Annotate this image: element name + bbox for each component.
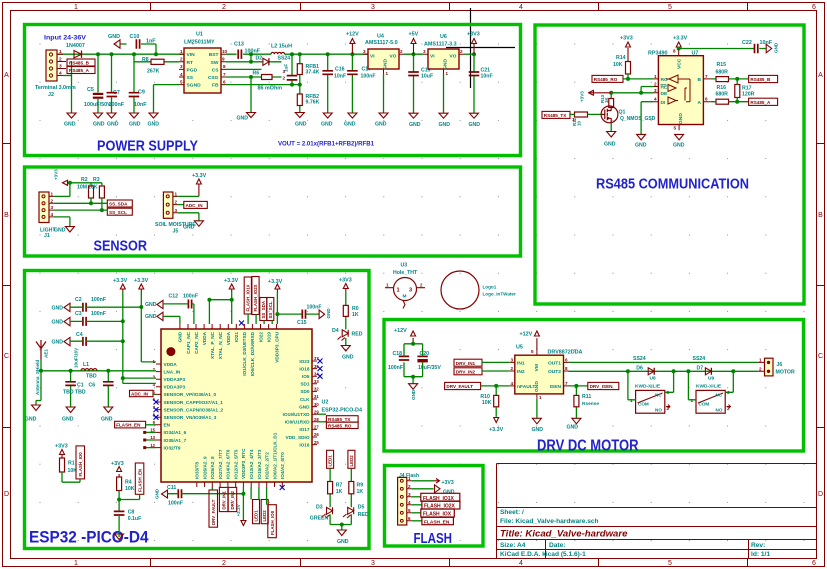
svg-text:86 mOhm: 86 mOhm (258, 86, 283, 92)
svg-text:D7: D7 (697, 366, 704, 372)
svg-text:GND: GND (673, 143, 685, 149)
svg-text:Antenna_SHield: Antenna_SHield (35, 360, 40, 395)
svg-text:R7: R7 (336, 483, 343, 489)
svg-text:GND: GND (295, 122, 307, 128)
svg-text:+3.3V: +3.3V (224, 278, 239, 284)
svg-text:GND: GND (411, 389, 416, 400)
svg-text:2: 2 (51, 198, 54, 203)
svg-text:SS24: SS24 (633, 356, 646, 362)
svg-text:R4: R4 (125, 480, 132, 486)
svg-text:FLASH_EN: FLASH_EN (424, 519, 450, 525)
svg-text:GND: GND (148, 122, 160, 128)
svg-text:6: 6 (223, 79, 226, 84)
svg-text:GND: GND (299, 404, 310, 409)
svg-text:NO: NO (655, 408, 662, 413)
svg-text:GND: GND (93, 122, 105, 128)
U7 pin stubs (654, 49, 711, 131)
U7 internal buffers (666, 75, 690, 104)
resistor R1 10K (60, 458, 65, 472)
wire RO row (623, 78, 654, 80)
svg-text:Rev:: Rev: (751, 542, 765, 549)
svg-text:LNA_IN: LNA_IN (164, 369, 182, 374)
svg-text:SGND: SGND (187, 83, 202, 89)
svg-text:B: B (818, 212, 823, 219)
svg-text:FLASH_EN: FLASH_EN (116, 423, 141, 428)
global label RS485_RO (592, 75, 623, 82)
svg-text:10nF: 10nF (481, 74, 493, 80)
svg-text:IO14/A2_6/T6: IO14/A2_6/T6 (226, 449, 231, 479)
svg-text:2: 2 (460, 49, 463, 54)
svg-text:A: A (697, 100, 701, 106)
svg-text:VDDA: VDDA (164, 362, 178, 367)
wire J5 pin3 to gnd (178, 213, 199, 221)
svg-text:VO: VO (389, 54, 396, 60)
vertical global label DRV_FAULT (211, 487, 213, 490)
global label FLASH_EN (EN pin) (115, 421, 146, 428)
svg-text:KiCad E.D.A. kicad (5.1.6)-1: KiCad E.D.A. kicad (5.1.6)-1 (500, 551, 586, 558)
svg-text:35: 35 (314, 364, 319, 369)
svg-text:A: A (818, 72, 823, 79)
svg-text:IO35/A1_7: IO35/A1_7 (164, 438, 187, 443)
global label RS485_A (749, 98, 778, 105)
svg-text:26: 26 (314, 432, 319, 437)
svg-text:IO12/A2_5/T5: IO12/A2_5/T5 (234, 449, 239, 479)
vertical global label LED1 right (327, 450, 334, 468)
svg-text:3: 3 (59, 64, 62, 70)
connector J6 MOTOR (765, 358, 774, 376)
svg-text:R16: R16 (717, 85, 727, 91)
svg-text:GND: GND (443, 490, 455, 496)
svg-text:1: 1 (759, 357, 762, 362)
svg-text:GND: GND (237, 116, 249, 122)
svg-text:C12: C12 (169, 294, 179, 300)
svg-text:VDDA: VDDA (226, 331, 231, 345)
svg-text:A: A (4, 72, 9, 79)
svg-text:GND: GND (321, 122, 333, 128)
global label DRV_ISEN (588, 382, 619, 389)
svg-text:Sheet: /: Sheet: / (500, 509, 524, 516)
svg-text:4: 4 (408, 500, 411, 505)
svg-text:30: 30 (314, 402, 319, 407)
svg-text:C8: C8 (128, 510, 135, 516)
svg-text:U6: U6 (440, 34, 447, 40)
svg-text:IO27/A2_7/T7: IO27/A2_7/T7 (218, 449, 223, 479)
svg-text:VOUT = 2.01x(RFB1+RFB2)/RFB1: VOUT = 2.01x(RFB1+RFB2)/RFB1 (278, 141, 374, 148)
svg-text:RS485_TX: RS485_TX (328, 417, 351, 422)
svg-text:IO18: IO18 (299, 366, 310, 371)
svg-text:267K: 267K (147, 69, 160, 75)
svg-text:IO33/T8: IO33/T8 (195, 462, 200, 479)
svg-text:RE: RE (661, 85, 669, 91)
gnd arrow J5 (194, 221, 203, 227)
svg-text:GND: GND (469, 122, 481, 128)
svg-text:Q_NMOS_GSD: Q_NMOS_GSD (620, 116, 656, 122)
vertical global label FLASH_IO2X (252, 277, 259, 315)
svg-text:+12V: +12V (346, 32, 359, 38)
resistor R11 Rsense (574, 395, 579, 406)
gnd arrow right C22 (766, 44, 772, 53)
junction dots (249, 52, 253, 56)
svg-text:SENSOR_CAPP/IO37/A1_1: SENSOR_CAPP/IO37/A1_1 (164, 400, 224, 405)
wire R8 tap (134, 61, 179, 63)
wire U6 out (464, 53, 474, 55)
svg-text:2: 2 (511, 366, 514, 371)
svg-text:2: 2 (175, 200, 178, 205)
capacitor C6 TBD (107, 371, 109, 407)
svg-text:POWER SUPPLY: POWER SUPPLY (97, 139, 198, 155)
resistor R12 10 (575, 112, 588, 117)
svg-text:GND: GND (678, 113, 684, 124)
svg-text:VO: VO (449, 54, 456, 60)
vertical global label LED2 (258, 487, 260, 500)
svg-text:SS: SS (187, 75, 194, 81)
svg-text:IO22: IO22 (258, 332, 263, 343)
svg-text:DRV_IN2: DRV_IN2 (230, 490, 235, 509)
svg-text:RS485_A: RS485_A (69, 68, 90, 73)
svg-text:+3V3: +3V3 (111, 461, 124, 467)
wire output rail (251, 53, 368, 55)
svg-text:1: 1 (386, 71, 389, 76)
global label SS_SDA (107, 200, 132, 207)
svg-text:C10: C10 (130, 34, 140, 40)
svg-text:KWD-XILIE: KWD-XILIE (696, 384, 722, 390)
svg-text:25: 25 (314, 440, 319, 445)
svg-text:J1: J1 (44, 233, 50, 239)
resistor R7 1K (329, 469, 331, 508)
svg-text:R6: R6 (253, 71, 260, 77)
no-connect X right pins (318, 359, 323, 379)
wire cap bridge (404, 344, 423, 384)
wire gnd into title (118, 534, 120, 537)
svg-text:IO26/A2_9: IO26/A2_9 (202, 456, 207, 479)
svg-text:R2: R2 (81, 177, 88, 183)
capacitor C22 10nF (679, 48, 767, 50)
svg-text:GND: GND (326, 308, 331, 319)
svg-text:IO19: IO19 (266, 332, 271, 343)
svg-text:SS_SDA: SS_SDA (109, 202, 128, 207)
svg-text:1: 1 (397, 288, 400, 294)
resistor R4 10K (117, 477, 122, 491)
global label DRV_IN2 (454, 368, 482, 375)
global label RS485_TX (317, 413, 326, 415)
svg-text:GND: GND (774, 42, 779, 53)
svg-text:SD1: SD1 (300, 382, 310, 387)
svg-text:IO0/A2_1/T1/CLK_D1: IO0/A2_1/T1/CLK_D1 (272, 432, 277, 479)
svg-text:GND: GND (604, 142, 616, 148)
svg-text:+3.3V: +3.3V (673, 36, 688, 42)
wire J1 pin1 to +3V3 and R2 R3 rail (54, 183, 102, 197)
svg-text:+3V3: +3V3 (467, 32, 480, 38)
svg-text:RED: RED (358, 512, 369, 518)
svg-text:VDDA: VDDA (202, 331, 207, 345)
svg-text:PGD: PGD (187, 67, 198, 73)
svg-text:9: 9 (222, 57, 225, 62)
svg-text:33: 33 (314, 379, 319, 384)
svg-text:TBD: TBD (86, 373, 97, 379)
svg-text:3: 3 (371, 560, 375, 567)
svg-text:GND: GND (145, 314, 157, 320)
svg-text:ESP32-PICO-D4: ESP32-PICO-D4 (322, 408, 362, 414)
svg-text:D: D (4, 491, 9, 498)
svg-text:ADC_IN: ADC_IN (131, 392, 149, 397)
svg-text:4: 4 (51, 212, 54, 217)
svg-text:32: 32 (314, 387, 319, 392)
svg-text:37: 37 (314, 356, 319, 361)
gnd arrow Q1 (610, 123, 612, 132)
svg-text:5: 5 (668, 560, 672, 567)
vertical global label LED1 (250, 487, 252, 500)
svg-text:COM: COM (699, 402, 710, 407)
svg-text:3: 3 (51, 205, 54, 210)
svg-text:GND: GND (178, 331, 183, 342)
svg-text:SOIL MOISTURE: SOIL MOISTURE (155, 222, 196, 228)
svg-text:7: 7 (223, 72, 226, 77)
svg-text:RO: RO (661, 77, 669, 83)
svg-text:GND: GND (129, 122, 141, 128)
svg-text:U5: U5 (516, 345, 523, 351)
svg-text:IO1/CLK_D3/U0TXD: IO1/CLK_D3/U0TXD (242, 331, 247, 375)
svg-text:D2: D2 (256, 56, 263, 62)
svg-text:DRV_FAULT: DRV_FAULT (211, 499, 216, 525)
svg-text:GND: GND (342, 355, 354, 361)
svg-text:3: 3 (511, 357, 514, 362)
vertical global label FLASH_IO0 bottom (266, 487, 268, 505)
svg-text:GND: GND (155, 488, 160, 499)
gnd arrows bottom row (67, 113, 158, 118)
svg-text:IO2/A2_2/T2: IO2/A2_2/T2 (265, 452, 270, 479)
svg-text:LED1: LED1 (254, 510, 259, 522)
vertical global label SS_SDA (260, 298, 267, 321)
global label RS485_B (67, 59, 95, 66)
svg-text:IO13/A2_4/T4: IO13/A2_4/T4 (249, 449, 254, 479)
svg-text:FB: FB (212, 83, 219, 89)
svg-text:LED2: LED2 (349, 455, 354, 467)
logo circle (441, 271, 479, 309)
no-connect X top (239, 321, 244, 326)
svg-text:J2: J2 (48, 92, 54, 98)
svg-text:FLASH_IO0: FLASH_IO0 (78, 452, 83, 477)
svg-text:GND: GND (107, 122, 119, 128)
svg-text:GREEN: GREEN (310, 516, 329, 522)
svg-text:L1: L1 (83, 362, 89, 368)
svg-text:+3.3V: +3.3V (236, 503, 241, 516)
title block (497, 464, 817, 559)
svg-text:RS485_RO: RS485_RO (594, 77, 618, 82)
svg-text:9.76K: 9.76K (306, 100, 320, 106)
wire switch 1 (628, 371, 674, 400)
svg-text:1: 1 (691, 398, 694, 403)
svg-text:4: 4 (519, 4, 523, 11)
svg-text:GND: GND (409, 122, 421, 128)
svg-text:IO32/T9: IO32/T9 (164, 445, 181, 450)
svg-text:VDDA3P3: VDDA3P3 (164, 385, 186, 390)
svg-text:DE: DE (661, 91, 669, 97)
svg-text:DRV DC MOTOR: DRV DC MOTOR (537, 438, 639, 455)
vertical global label FLASH_IO1X (244, 277, 251, 314)
svg-text:1: 1 (446, 71, 449, 76)
svg-text:34: 34 (314, 371, 319, 376)
global label RS485_RO (317, 421, 326, 423)
wire BST to C13 (226, 54, 251, 62)
vertical global label SS_SCL (267, 298, 274, 321)
svg-text:IO25/A2_8: IO25/A2_8 (210, 456, 215, 479)
svg-text:D5: D5 (358, 505, 365, 511)
svg-text:10: 10 (577, 121, 582, 126)
svg-text:AE1: AE1 (44, 349, 49, 358)
gnd arrow RFB2 (295, 113, 304, 118)
svg-text:VDD3P3_CPU: VDD3P3_CPU (274, 331, 279, 362)
section box POWER SUPPLY (25, 25, 521, 156)
svg-text:D3: D3 (316, 505, 323, 511)
svg-text:IO0/CLK_D2/U0RXD: IO0/CLK_D2/U0RXD (250, 331, 255, 376)
svg-text:C22: C22 (742, 40, 752, 46)
svg-text:+12V: +12V (520, 332, 533, 338)
svg-text:U1: U1 (196, 32, 203, 38)
svg-text:CLK: CLK (300, 397, 310, 402)
svg-text:NC: NC (716, 392, 723, 397)
svg-text:2: 2 (222, 4, 226, 11)
resistor RFB1 37.4K (297, 64, 302, 75)
svg-text:GND: GND (51, 306, 63, 312)
svg-text:2: 2 (283, 76, 286, 81)
svg-text:2: 2 (400, 49, 403, 54)
svg-text:DRV_ISEN: DRV_ISEN (590, 384, 614, 389)
svg-text:GND: GND (51, 320, 63, 326)
svg-text:GND: GND (375, 122, 387, 128)
svg-text:GND: GND (108, 34, 120, 40)
svg-text:10M: 10M (77, 185, 87, 191)
svg-text:XTAL_P_NC: XTAL_P_NC (210, 331, 215, 359)
U2 right pin stubs (312, 361, 317, 445)
svg-text:GND: GND (145, 302, 157, 308)
svg-text:1: 1 (654, 74, 657, 79)
power arrow +3.3V down (242, 487, 244, 520)
vertical global label LED2 right (348, 450, 355, 468)
svg-text:FLASH: FLASH (414, 531, 453, 547)
svg-text:+5V: +5V (409, 32, 419, 38)
svg-text:IO5: IO5 (302, 374, 310, 379)
svg-text:SENSOR_VN/IO39/A1_3: SENSOR_VN/IO39/A1_3 (164, 415, 217, 420)
svg-text:2: 2 (759, 366, 762, 371)
svg-text:C: C (4, 353, 9, 360)
gnd arrow U7 (675, 134, 684, 140)
svg-text:VI: VI (370, 54, 375, 60)
svg-text:IN2: IN2 (517, 369, 525, 375)
svg-text:OUT1: OUT1 (548, 360, 561, 366)
wire cap columns (72, 44, 157, 113)
svg-text:1: 1 (74, 560, 78, 567)
resistor RFB2 9.76K (297, 94, 302, 106)
svg-text:+3V3: +3V3 (55, 444, 68, 450)
wire U4 to U6 (404, 53, 423, 55)
svg-text:AMS1117-3.3: AMS1117-3.3 (424, 42, 457, 48)
svg-text:U3: U3 (401, 263, 408, 269)
svg-text:nFAULT: nFAULT (517, 384, 535, 390)
section box DRV DC MOTOR (384, 320, 804, 452)
capacitor C16 10nF (327, 54, 329, 113)
svg-text:3: 3 (283, 69, 286, 74)
svg-text:VIN: VIN (187, 52, 196, 58)
global label SS_SCL (107, 208, 132, 215)
svg-text:TBD: TBD (75, 390, 86, 396)
global label RS485_B (749, 75, 778, 82)
svg-text:7: 7 (705, 74, 708, 79)
svg-text:GND: GND (337, 539, 349, 545)
svg-text:4: 4 (59, 71, 62, 77)
wire switch 2 (688, 371, 733, 400)
svg-text:2: 2 (222, 560, 226, 567)
global label DRV_FAULT (445, 382, 481, 389)
capacitor C1 TBD (70, 371, 72, 407)
svg-text:3: 3 (180, 64, 183, 69)
svg-text:1: 1 (59, 49, 62, 55)
svg-text:5: 5 (180, 79, 183, 84)
svg-text:LM25011MY: LM25011MY (184, 40, 215, 46)
svg-text:SS24: SS24 (278, 56, 291, 62)
svg-text:IO19/U1TXD: IO19/U1TXD (283, 412, 310, 417)
svg-text:Logo1: Logo1 (483, 285, 497, 290)
svg-text:C5: C5 (87, 87, 94, 93)
svg-text:680R: 680R (716, 70, 729, 76)
svg-text:10nF: 10nF (134, 102, 147, 108)
svg-text:ISEN: ISEN (550, 384, 562, 390)
svg-text:GND: GND (344, 122, 356, 128)
svg-text:1: 1 (74, 4, 78, 11)
svg-text:Logo_InTWater: Logo_InTWater (483, 292, 516, 297)
svg-text:SS_SCL: SS_SCL (109, 210, 127, 215)
svg-text:10K: 10K (88, 185, 98, 191)
svg-text:4: 4 (511, 381, 514, 386)
svg-text:R3: R3 (93, 177, 100, 183)
svg-text:10K: 10K (482, 400, 492, 406)
global label FLASH_EN (411, 520, 422, 522)
svg-text:Q1: Q1 (619, 110, 626, 116)
svg-text:1: 1 (180, 49, 183, 54)
svg-text:GND: GND (101, 417, 113, 423)
svg-text:+3V3: +3V3 (339, 278, 352, 284)
power arrow +3V3 pin1 (411, 480, 434, 482)
svg-text:R11: R11 (582, 394, 591, 400)
capacitor C21 10nF (473, 54, 475, 113)
wire IO34 IO35 IO32 stubs (146, 432, 156, 447)
svg-text:Size: A4: Size: A4 (500, 542, 526, 549)
svg-text:4: 4 (519, 560, 523, 567)
svg-text:1: 1 (408, 476, 411, 481)
gnd arrow U5 (536, 399, 538, 418)
svg-text:U2: U2 (322, 400, 329, 406)
svg-text:GND: GND (567, 425, 579, 431)
power arrow +3.3V down (494, 418, 499, 423)
svg-text:CS: CS (212, 67, 220, 73)
svg-text:SD0: SD0 (300, 389, 310, 394)
svg-text:10: 10 (222, 49, 228, 54)
svg-text:C16: C16 (335, 67, 345, 73)
section box FLASH (385, 466, 484, 547)
svg-text:3: 3 (363, 49, 366, 54)
svg-text:KWD-XILIE: KWD-XILIE (635, 384, 661, 390)
svg-text:C2: C2 (75, 297, 82, 303)
wire J2 pin4 to gnd (63, 75, 72, 77)
svg-text:3: 3 (371, 4, 375, 11)
svg-text:2: 2 (654, 82, 657, 87)
svg-text:IO9/U1RXD: IO9/U1RXD (285, 420, 310, 425)
svg-text:GND: GND (62, 417, 74, 423)
U2 left pin stubs (156, 364, 161, 448)
svg-text:6: 6 (408, 516, 411, 521)
svg-text:GND: GND (532, 427, 544, 433)
svg-text:SENSOR_VP/IO36/A1_0: SENSOR_VP/IO36/A1_0 (164, 392, 217, 397)
global label ADC_IN (178, 204, 184, 206)
